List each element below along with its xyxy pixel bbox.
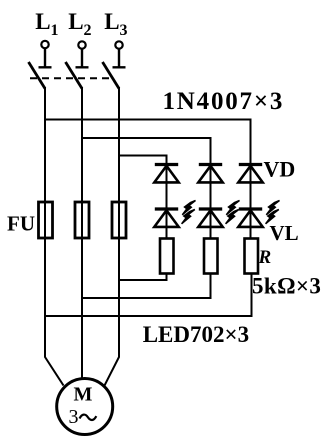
diode VD3: [238, 165, 262, 183]
switch QS pole 2 fixed contact: [76, 49, 89, 67]
resistor R2: [204, 239, 218, 274]
LED VL1: [154, 201, 195, 227]
label VL: [270, 221, 299, 245]
label R: [258, 247, 272, 268]
wire L3 bus vertical: [105, 87, 120, 386]
switch QS pole 1 fixed contact: [39, 49, 52, 68]
node L1 label: [35, 9, 58, 39]
switch linkage dashed line: [30, 77, 112, 79]
wire L1 bus vertical: [45, 87, 64, 386]
motor label 3~: [69, 406, 97, 428]
wire branch 2 vertical: [210, 164, 212, 239]
svg-text:VL: VL: [270, 221, 299, 245]
LED VL2: [198, 201, 239, 227]
wire L3 to branch 1 top: [119, 156, 167, 165]
motor M circle: [57, 379, 113, 435]
svg-text:1N4007×3: 1N4007×3: [163, 88, 285, 115]
terminal circle L3: [115, 41, 122, 48]
resistor R3: [245, 239, 259, 274]
wire L1 to branch 3 top: [45, 120, 251, 165]
svg-text:5kΩ×3: 5kΩ×3: [252, 274, 321, 299]
fuse FU3: [112, 202, 126, 238]
fuse FU2: [75, 202, 89, 238]
terminal circle L2: [78, 41, 85, 48]
wire resistor R1 bottom to L3 bus: [119, 274, 167, 281]
svg-text:FU: FU: [7, 212, 35, 236]
diode VD1: [154, 165, 178, 183]
wire resistor R3 bottom to L1 bus: [45, 274, 252, 317]
svg-text:VD: VD: [264, 156, 296, 181]
diode VD2: [198, 165, 222, 183]
label LED702x3: [143, 322, 249, 347]
svg-text:3: 3: [69, 406, 79, 428]
terminal circle L1: [41, 41, 48, 48]
svg-text:R: R: [258, 247, 272, 268]
svg-text:LED702×3: LED702×3: [143, 322, 249, 347]
switch QS blade 3: [103, 62, 120, 89]
resistor R1: [160, 239, 174, 274]
switch QS blade 1: [29, 62, 46, 89]
label 5k ohm x3: [252, 274, 321, 299]
node L2 label: [68, 9, 91, 39]
wire resistor R2 bottom to L2 bus: [82, 274, 211, 299]
switch QS blade 2: [66, 62, 83, 89]
wire L2 bus vertical: [81, 87, 83, 379]
label VD: [264, 156, 296, 181]
switch QS pole 3 fixed contact: [113, 49, 126, 67]
label FU: [7, 212, 35, 236]
motor label M: [74, 384, 93, 406]
wire L2 to branch 2 top: [82, 138, 211, 164]
node L3 label: [104, 9, 127, 39]
fuse FU1: [39, 202, 53, 238]
label 1N4007x3: [163, 88, 285, 115]
LED VL3: [238, 201, 279, 227]
wire branch 3 vertical: [250, 164, 252, 239]
svg-text:M: M: [74, 384, 93, 406]
wire branch 1 vertical: [166, 164, 168, 239]
